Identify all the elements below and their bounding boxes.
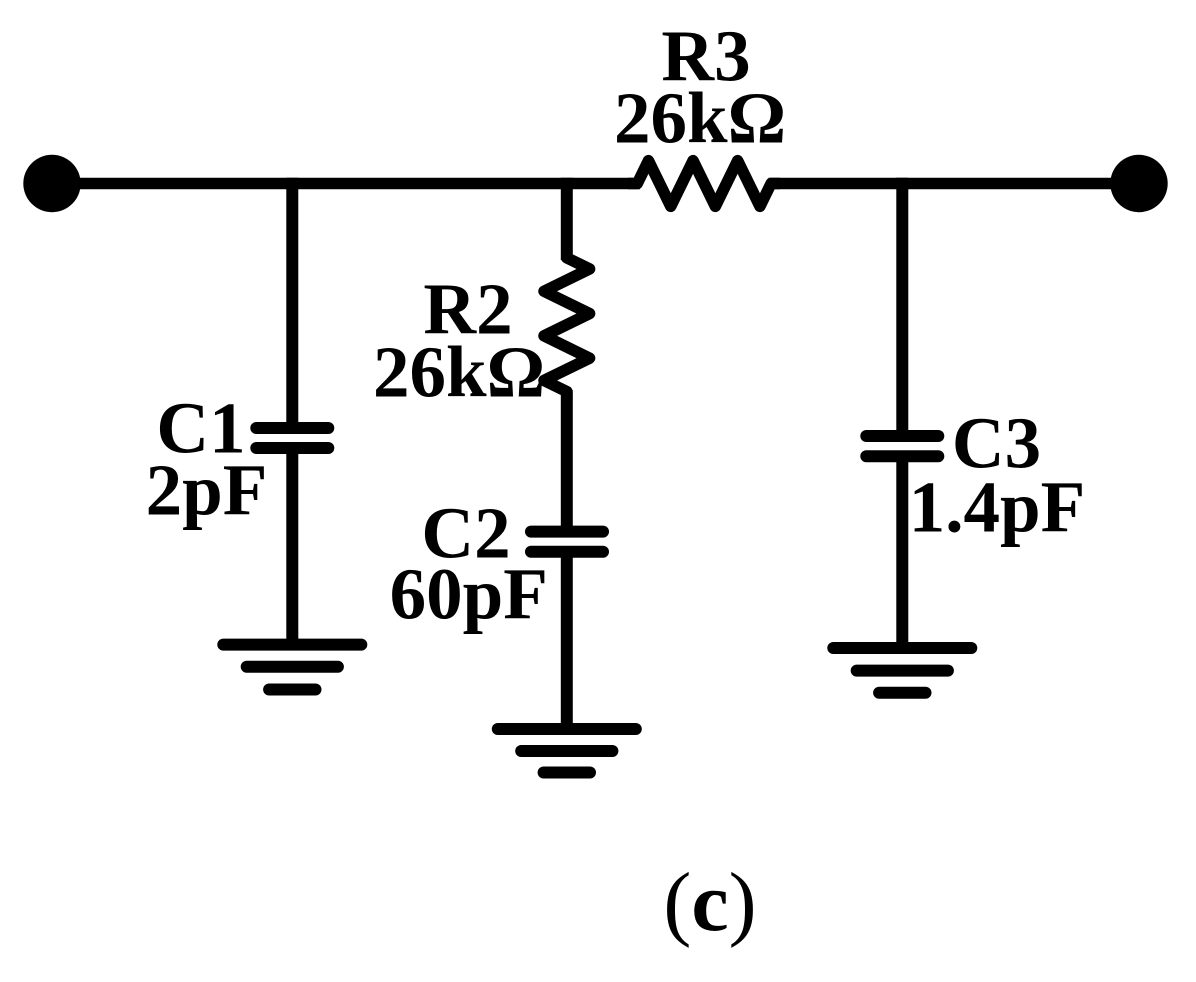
svg-text:26kΩ: 26kΩ <box>614 78 786 159</box>
resistor R2 <box>544 249 590 400</box>
wire top right segment <box>769 178 1140 190</box>
wire branch2 middle <box>561 390 573 533</box>
wire branch1 upper <box>286 178 298 430</box>
svg-text:60pF: 60pF <box>390 554 548 635</box>
wire branch3 upper <box>896 178 908 438</box>
ground G2 <box>498 729 636 773</box>
wire branch2 lower <box>561 552 573 729</box>
capacitor C3 <box>866 436 938 456</box>
capacitor C1 <box>256 428 328 448</box>
svg-text:1.4pF: 1.4pF <box>909 467 1085 548</box>
wire branch2 upper <box>561 178 573 260</box>
ground G1 <box>223 645 361 690</box>
terminal node right <box>1110 155 1167 212</box>
terminal node left <box>23 155 80 212</box>
wire branch1 lower <box>286 448 298 645</box>
wire top left segment <box>52 178 640 190</box>
svg-text:26kΩ: 26kΩ <box>373 332 545 413</box>
resistor R3 <box>628 161 780 207</box>
ground G3 <box>833 648 971 693</box>
wire branch3 lower <box>896 456 908 648</box>
svg-text:(c): (c) <box>663 856 756 949</box>
capacitor C2 <box>531 532 603 552</box>
svg-text:2pF: 2pF <box>146 450 268 531</box>
